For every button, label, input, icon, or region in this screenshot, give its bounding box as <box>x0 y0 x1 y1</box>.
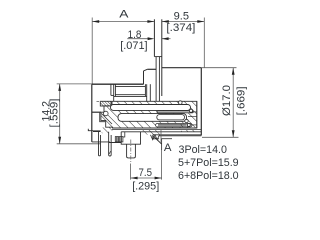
svg-text:A: A <box>164 142 172 154</box>
upper cavity inner top <box>115 85 145 87</box>
contact circle C <box>187 124 190 127</box>
contact slot A <box>111 105 191 111</box>
comb teeth <box>116 137 118 142</box>
dim dia17 arrow up <box>232 68 235 75</box>
bottom-left thick line <box>93 130 101 132</box>
dim A line <box>92 21 154 23</box>
dim 9.5 extension line right <box>203 18 205 69</box>
hatch piece left of peg base <box>102 127 113 133</box>
dim 14.2 extension top <box>57 83 92 85</box>
flange top edge <box>147 68 156 70</box>
flange front face <box>143 71 145 84</box>
dim 1.8 arrow left <box>148 37 155 40</box>
body top edge right <box>162 67 202 69</box>
svg-text:9.5: 9.5 <box>174 11 189 23</box>
bottom wall hatch piece <box>142 130 161 135</box>
tab shoulder <box>154 56 161 58</box>
contact circle top <box>179 101 183 105</box>
pin 2 bend tick <box>109 151 111 154</box>
bottom wall line 1 <box>112 129 201 131</box>
dim 14.2 extension bottom <box>57 143 100 145</box>
dim 9.5 arrow right <box>197 20 204 23</box>
dim 7.5 line <box>131 177 162 179</box>
contact centerline tick <box>97 101 103 103</box>
dim 1.8 leader <box>127 38 148 40</box>
bottom step notch <box>153 135 159 139</box>
contact slot C <box>156 124 192 127</box>
svg-text:[.374]: [.374] <box>166 22 195 34</box>
inner wall x150 <box>149 84 151 101</box>
svg-text:5+7Pol=15.9: 5+7Pol=15.9 <box>178 157 239 169</box>
cavity wall right outer <box>146 84 148 101</box>
svg-text:3Pol=14.0: 3Pol=14.0 <box>179 144 227 156</box>
contact circle left <box>104 111 109 116</box>
section mark corner <box>162 139 172 150</box>
dim 7.5 extension right <box>161 150 163 180</box>
dim 7.5 arrow left <box>131 177 138 180</box>
svg-text:6+8Pol=18.0: 6+8Pol=18.0 <box>178 170 239 182</box>
bottom wall band <box>159 135 201 136</box>
rear wall line <box>196 101 198 128</box>
dim 7.5 arrow right <box>155 177 162 180</box>
svg-text:[.071]: [.071] <box>120 40 147 52</box>
dim 7.5 extension left <box>130 164 132 180</box>
dim dia17 line <box>232 68 234 138</box>
svg-text:7.5: 7.5 <box>139 167 153 179</box>
mounting block notch <box>121 132 125 137</box>
dim dia17 extension bottom <box>202 136 239 138</box>
inner wall x110.9 <box>110 84 112 95</box>
tab left edge / extension <box>153 19 155 56</box>
tab neck right <box>158 57 160 102</box>
section leader <box>153 136 162 144</box>
comb block <box>115 137 123 142</box>
mounting block <box>121 132 140 144</box>
contact bar C <box>158 123 187 125</box>
contact slot B <box>118 114 187 122</box>
contact bar A <box>157 111 193 113</box>
mounting peg <box>127 144 136 158</box>
cavity wall right inner <box>144 84 146 96</box>
dim A extension line left <box>91 18 93 85</box>
insulator hatched block <box>101 101 197 128</box>
dim 14.2 arrow down <box>58 137 61 144</box>
serration zigzag <box>151 135 160 140</box>
dim 9.5 line <box>162 21 205 23</box>
contact bar B <box>157 115 185 120</box>
dim 14.2 arrow up <box>58 84 61 91</box>
body right face <box>200 68 202 136</box>
contact tail B <box>188 116 197 118</box>
svg-text:[.559]: [.559] <box>49 99 61 128</box>
contact circle A <box>189 109 192 112</box>
body top edge left <box>92 83 144 85</box>
dim 9.5 arrow left <box>162 20 169 23</box>
pin 2 <box>109 132 112 156</box>
tab right edge / extension <box>161 19 163 96</box>
hatch wedge in slot C <box>180 124 192 127</box>
upper cavity floor <box>115 94 145 96</box>
bottom-left lip <box>88 129 93 131</box>
step doubled edge <box>100 113 106 122</box>
contact tail A <box>193 111 197 113</box>
cavity wall left outer <box>113 84 115 101</box>
dim dia17 extension top <box>201 67 236 69</box>
dim 7.5 extension right upper <box>160 130 162 142</box>
dim dia17 arrow down <box>232 130 235 137</box>
body left face <box>91 84 93 142</box>
cavity step line <box>92 111 101 113</box>
bottom-left block bottom <box>92 141 121 144</box>
dim A arrow left <box>92 20 99 23</box>
step inner diagonal <box>102 114 113 125</box>
bottom wall hatch piece right <box>181 130 197 132</box>
contact circle B <box>185 119 188 122</box>
svg-text:A: A <box>119 8 129 21</box>
tab neck left <box>155 57 157 102</box>
inner step y95.4 <box>111 94 114 96</box>
pin 1 <box>98 132 100 156</box>
upper cavity floor lower <box>114 95 147 97</box>
dim 1.8 arrow right <box>162 37 169 40</box>
cavity wall left inner <box>114 84 116 96</box>
bottom wall line 3 <box>153 134 202 136</box>
contact tail C <box>190 124 196 126</box>
shield hatched block <box>100 101 111 106</box>
dim 14.2 line <box>59 84 61 144</box>
peg centerline <box>130 140 132 164</box>
bottom wall line 2 <box>121 131 201 133</box>
svg-text:[.669]: [.669] <box>235 86 247 115</box>
svg-text:Ø17.0: Ø17.0 <box>221 85 233 116</box>
flange chamfer <box>144 69 148 71</box>
dim 1.8 arrow right tail <box>162 38 171 40</box>
svg-text:[.295]: [.295] <box>132 181 159 193</box>
dim A arrow right <box>147 20 154 23</box>
